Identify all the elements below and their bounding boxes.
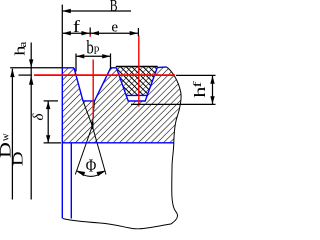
svg-text:b: b [86,38,93,59]
svg-text:p: p [94,43,100,55]
svg-text:δ: δ [31,113,47,121]
svg-text:h: h [192,86,209,98]
svg-text:Φ: Φ [86,156,97,176]
svg-text:D: D [9,151,26,166]
svg-text:B: B [110,0,118,15]
svg-text:a: a [16,41,29,48]
svg-text:f: f [73,17,80,36]
svg-text:w: w [0,133,11,141]
svg-text:e: e [111,20,118,36]
svg-text:f: f [191,80,204,87]
